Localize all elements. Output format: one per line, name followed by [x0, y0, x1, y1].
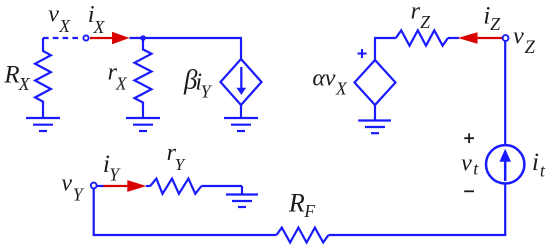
label it	[532, 147, 546, 180]
svg-text:t: t	[473, 158, 479, 178]
svg-text:Y: Y	[109, 164, 121, 184]
svg-text:X: X	[18, 74, 31, 94]
wire iY arrow tip to rY	[146, 185, 151, 187]
svg-text:X: X	[115, 74, 128, 94]
svg-text:F: F	[303, 201, 315, 221]
svg-text:X: X	[93, 17, 106, 37]
label iZ	[483, 1, 501, 35]
node junction rX/top rail	[140, 35, 146, 41]
label rX	[108, 60, 128, 94]
label beta iY	[183, 65, 213, 102]
current arrow iZ	[458, 32, 502, 43]
current source it	[486, 145, 524, 183]
label RF	[288, 189, 316, 222]
svg-text:Y: Y	[73, 185, 85, 205]
resistor rX	[135, 38, 152, 118]
svg-text:v: v	[325, 65, 336, 91]
dependent voltage source U2 alpha vX	[355, 49, 396, 105]
svg-text:i: i	[532, 147, 539, 176]
wire dashed vX sense lead	[43, 37, 80, 39]
ground at rY	[226, 186, 258, 207]
wire it source to bottom rail	[504, 184, 506, 235]
dependent current source U1 beta iY	[221, 59, 262, 105]
current arrow iX	[90, 32, 130, 45]
wire rZ to iZ arrow	[448, 37, 459, 39]
wire rY to ground	[201, 185, 242, 187]
resistor RF	[277, 228, 329, 243]
svg-text:v: v	[513, 23, 524, 49]
node vY terminal	[91, 183, 97, 189]
ground under RX	[26, 118, 60, 131]
node vZ terminal	[503, 35, 509, 41]
label iY	[103, 149, 121, 184]
svg-text:Y: Y	[201, 82, 213, 102]
label rZ	[411, 0, 431, 32]
svg-text:α: α	[312, 65, 325, 91]
svg-text:X: X	[58, 16, 71, 36]
svg-text:Z: Z	[490, 14, 501, 34]
svg-text:R: R	[3, 62, 19, 89]
resistor rY	[150, 179, 201, 194]
label vX	[48, 2, 71, 37]
label rY	[167, 140, 186, 174]
svg-text:Z: Z	[420, 12, 430, 32]
ground under beta source	[224, 105, 258, 131]
resistor RX	[35, 38, 51, 118]
ground under rX	[126, 118, 160, 131]
svg-text:v: v	[48, 2, 59, 28]
label vt	[461, 150, 479, 178]
label vY	[61, 171, 85, 205]
wire bottom rail right of RF	[329, 234, 507, 236]
label vt plus	[464, 133, 474, 143]
wire top rail to beta source	[130, 38, 242, 59]
wire alpha source to rZ	[375, 38, 396, 60]
label alpha vX	[312, 65, 348, 98]
svg-text:v: v	[461, 150, 472, 176]
wire vY terminal to iY arrow	[97, 185, 105, 187]
label iX	[88, 1, 106, 37]
label RX	[3, 62, 30, 95]
label vZ	[513, 23, 536, 58]
resistor rZ	[396, 30, 448, 45]
svg-text:X: X	[335, 79, 348, 99]
wire vY down and bottom rail left of RF	[94, 189, 277, 235]
svg-text:Y: Y	[175, 155, 186, 174]
wire vZ down to it source	[504, 42, 506, 145]
svg-text:r: r	[411, 0, 421, 24]
svg-text:Z: Z	[525, 38, 536, 58]
current arrow iY	[104, 180, 147, 192]
ground under alpha source	[358, 105, 391, 133]
svg-text:R: R	[288, 189, 305, 218]
node vX terminal	[83, 35, 88, 40]
label vt minus	[464, 190, 474, 192]
svg-text:t: t	[540, 160, 546, 180]
svg-text:v: v	[61, 171, 72, 197]
